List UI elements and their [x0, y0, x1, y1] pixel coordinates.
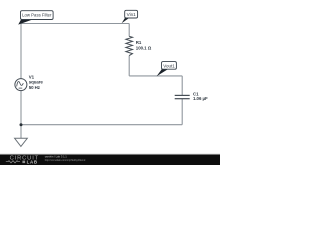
junction dot at bottom-left node [20, 123, 23, 126]
CircuitLab logo: resistor zigzag glyph [6, 161, 20, 163]
svg-text:50 Hz: 50 Hz [29, 85, 41, 90]
flag pointer for Low Pass Filter label [18, 19, 33, 24]
svg-text:Vin1: Vin1 [127, 12, 137, 17]
node label Vin1 [125, 10, 138, 18]
voltage source V1 circle [15, 79, 27, 91]
wire: resistor bottom stub [128, 56, 130, 76]
wire: resistor top stub [128, 24, 130, 37]
wire: top horizontal from left corner to resistor node [21, 23, 129, 25]
svg-text:http://circuitlab.com/c/p/hbdb: http://circuitlab.com/c/p/hbdbyhbkmd [45, 159, 86, 162]
wire: capacitor top stub [181, 76, 183, 95]
svg-text:Vout1: Vout1 [163, 63, 175, 68]
capacitor C1 labels [193, 92, 208, 101]
flag pointer for node Vout1 [157, 69, 169, 76]
node label Vout1 [162, 62, 177, 70]
flag pointer for node Vin1 [122, 18, 130, 23]
capacitor C1 plates [175, 95, 190, 98]
svg-text:V1: V1 [29, 74, 35, 79]
resistor R1 zigzag [126, 36, 133, 55]
CircuitLab logo: LAB wordmark [22, 161, 25, 164]
wire: left vertical from top corner down to bottom junction [20, 24, 22, 125]
voltage source V1 labels [29, 74, 44, 90]
svg-text:R1: R1 [136, 40, 142, 45]
voltage source V1 sine glyph [17, 81, 24, 86]
canvas background [0, 0, 220, 165]
resistor R1 labels [136, 40, 152, 50]
svg-text:LAB: LAB [27, 159, 38, 164]
wire: ground stub [20, 125, 22, 139]
svg-text:Low Pass Filter: Low Pass Filter [22, 13, 52, 18]
footer black bar [0, 155, 220, 166]
svg-text:100.1 Ω: 100.1 Ω [136, 45, 152, 50]
ground symbol [15, 138, 28, 146]
svg-text:1.06 µF: 1.06 µF [193, 96, 208, 101]
svg-text:square: square [29, 80, 44, 85]
voltage source V1 minus sign [19, 87, 23, 89]
wire: middle horizontal from resistor to capacitor branch [129, 75, 182, 77]
footer shadow line [0, 154, 220, 155]
label Low Pass Filter [21, 11, 54, 20]
wire: bottom horizontal return [21, 124, 182, 126]
wire: capacitor bottom stub [181, 99, 183, 125]
